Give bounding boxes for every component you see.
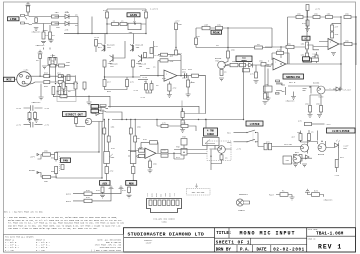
AUX label (100, 181, 111, 186)
svg-text:CHASSIS: CHASSIS (286, 100, 295, 103)
feedback cap C15 (161, 53, 168, 56)
bus wire (112, 119, 244, 121)
resistor R16 (58, 87, 61, 95)
svg-text:EARTH: EARTH (238, 209, 245, 212)
top left caps (144, 53, 147, 58)
wire (104, 67, 106, 77)
wire (64, 75, 85, 96)
resistor R53b (161, 154, 168, 157)
capacitor C13 (28, 113, 31, 119)
dashed mute box (207, 141, 231, 161)
led LED1 (335, 143, 339, 148)
capacitor C4 (52, 22, 59, 25)
wire hp to op5 (265, 46, 305, 48)
svg-text:1020P: 1020P (146, 241, 153, 244)
svg-text:VIEW: VIEW (162, 220, 168, 223)
capacitor C2 (27, 6, 30, 12)
capacitor C7 (126, 80, 129, 87)
top rail (288, 16, 342, 18)
mute drive box (283, 156, 292, 164)
transistor TR2 (110, 56, 114, 63)
svg-text:CHASSIS: CHASSIS (32, 31, 41, 34)
svg-text:TBA1-1.06M: TBA1-1.06M (316, 232, 344, 237)
resistor R62 (299, 134, 302, 141)
resistor R3 (50, 64, 56, 67)
resistor R48 (320, 106, 323, 113)
svg-text:+17V: +17V (16, 124, 22, 127)
diode D2 (65, 21, 69, 26)
ground (305, 29, 310, 32)
aux pot RV5 (104, 152, 110, 164)
pan pot RV7A (55, 153, 58, 160)
svg-text:PEAK: PEAK (213, 32, 220, 35)
svg-text:RIGHT: RIGHT (29, 169, 36, 172)
resistor R18 (62, 82, 65, 89)
wire (47, 65, 70, 67)
resistor R67 (161, 124, 168, 127)
svg-text:LEFT: LEFT (165, 193, 167, 197)
transistor TR1 (102, 34, 106, 52)
ground (26, 2, 31, 5)
svg-text:AUX2: AUX2 (66, 200, 72, 203)
resistor R52 below (149, 161, 152, 168)
link box (57, 91, 76, 102)
svg-text:100R: 100R (136, 62, 142, 65)
wire right edge (350, 17, 356, 65)
capacitor C17 (185, 73, 187, 78)
capacitor C31 (101, 187, 104, 193)
capacitor C21 (216, 26, 223, 30)
wire top row (196, 28, 272, 48)
resistor R21 (60, 95, 67, 98)
svg-text:XLR1: XLR1 (24, 68, 30, 71)
capacitor C34 (61, 165, 64, 170)
resistor R20 (83, 82, 86, 89)
svg-text:MON: MON (129, 182, 134, 185)
svg-text:100R: 100R (108, 62, 114, 65)
svg-text:FAST: FAST (269, 193, 275, 196)
svg-text:+17V: +17V (315, 7, 321, 10)
op-amp U1A (164, 70, 177, 81)
capacitor C28 (309, 106, 312, 113)
resistor R64 (335, 160, 338, 168)
resistor R63 (308, 134, 311, 141)
MIC label (4, 77, 15, 81)
resistor R17 (64, 87, 67, 95)
svg-text:LINE: LINE (10, 18, 17, 21)
ground (186, 94, 191, 97)
ground (87, 102, 92, 105)
pot RV2 (187, 80, 190, 87)
transistor TR3 (130, 34, 134, 52)
resistor R49 (305, 122, 312, 125)
pot RV4 (181, 149, 187, 156)
rail (64, 33, 107, 35)
svg-text:CHASSIS: CHASSIS (32, 101, 41, 104)
feedback resistor R50 (150, 141, 158, 144)
PEAK label (211, 30, 222, 34)
fader F1 (203, 138, 220, 146)
resistor R38 (313, 16, 320, 19)
not fitted box (187, 189, 211, 196)
label box (303, 57, 310, 61)
wire insert return (108, 112, 122, 120)
op-amp U2 (328, 39, 339, 50)
rail mid (64, 33, 146, 35)
resistor R37 (296, 16, 303, 19)
svg-text:-17V: -17V (334, 174, 340, 177)
svg-text:CHASSIS: CHASSIS (36, 44, 45, 47)
svg-text:NORMALISE: NORMALISE (286, 76, 300, 79)
wire (61, 76, 78, 83)
chassis tag (305, 189, 310, 192)
svg-text:+17V: +17V (147, 193, 149, 197)
transistor TR4 (138, 56, 142, 63)
wire gain bus (243, 62, 245, 120)
mon pot RV6 (130, 152, 136, 164)
ground row (42, 66, 47, 69)
svg-text:-17V: -17V (142, 76, 148, 79)
capacitor C10 (58, 75, 63, 78)
diode D6 (306, 155, 310, 159)
resistor R12 phantom (54, 58, 57, 65)
resistor R47 (312, 58, 319, 61)
resistor R11 phantom (48, 58, 51, 65)
capacitor C22 (261, 63, 266, 67)
wire (267, 69, 269, 99)
wire (76, 124, 85, 127)
svg-text:LISTEN: LISTEN (250, 123, 260, 126)
ground opamp (331, 53, 336, 56)
switch SW2 (247, 139, 255, 142)
resistor R26 (192, 74, 199, 77)
capacitor C6 (145, 12, 148, 18)
resistor R8 (132, 60, 135, 67)
CLIP/LISTEN label (327, 128, 356, 133)
wire (301, 130, 318, 144)
svg-text:REV 1: REV 1 (318, 243, 342, 250)
resistor R35 (240, 63, 246, 67)
svg-text:PAN: PAN (63, 160, 68, 163)
pot RV1 (128, 23, 141, 30)
resistor R51 (139, 154, 145, 157)
wire L bus (99, 122, 102, 179)
svg-text:LEFT: LEFT (30, 156, 36, 159)
NORMALISE label (283, 74, 304, 79)
mon stack resistor R56 (129, 128, 132, 134)
resistor R43 (344, 42, 352, 45)
svg-text:-17V: -17V (140, 96, 146, 99)
diode D5 slp (336, 87, 340, 92)
resistor R19 (74, 82, 77, 89)
GAIN label (127, 13, 140, 17)
MON label (126, 181, 137, 186)
resistor R32 (255, 46, 263, 49)
junction dots (106, 23, 107, 24)
svg-text:+48V: +48V (50, 54, 56, 57)
notes table outline (4, 235, 124, 253)
wire feedback right (340, 17, 342, 44)
svg-text:-17V: -17V (44, 107, 50, 110)
wire (132, 67, 134, 77)
eq box bottom (181, 100, 183, 102)
svg-text:( ) REF 1.06M ISSUE PCBS: ( ) REF 1.06M ISSUE PCBS (91, 249, 122, 252)
MIC GAIN label (236, 56, 252, 62)
wire join (256, 133, 264, 147)
wire rail drop (287, 17, 289, 64)
resistor R60 (294, 155, 297, 162)
resistor R5 (112, 23, 119, 26)
resistor R68 (181, 124, 188, 127)
resistor R53 (161, 150, 168, 153)
jack J4 (276, 83, 319, 94)
LDR R28 (202, 26, 210, 30)
resistor R13 (44, 75, 50, 78)
ground (293, 164, 307, 167)
insert label box B (91, 109, 99, 113)
svg-text:-17V: -17V (326, 123, 332, 126)
svg-text:DRWG No: DRWG No (308, 238, 316, 240)
wire (225, 63, 272, 72)
wire (182, 108, 184, 130)
svg-text:FADER: FADER (207, 133, 215, 136)
insert label box A (91, 105, 99, 109)
svg-text:CLIP/LISTEN: CLIP/LISTEN (332, 129, 350, 133)
ground (27, 120, 38, 123)
svg-text:MUTE: MUTE (319, 96, 325, 99)
wire insert send (108, 106, 199, 113)
transistor TR8 (301, 144, 309, 152)
ground chassis jack (34, 28, 39, 31)
svg-text:P.A.: P.A. (240, 249, 250, 253)
aux stack resistor R54 (103, 128, 106, 134)
ground (167, 95, 172, 98)
rail mid (196, 47, 272, 49)
svg-text:-17V: -17V (44, 124, 50, 127)
svg-text:AUX2: AUX2 (155, 193, 158, 197)
capacitor C36 (268, 143, 271, 150)
resistor R40 (331, 32, 334, 38)
wire node joins (78, 17, 92, 34)
capacitor C1 (35, 18, 38, 23)
ground (41, 40, 54, 44)
transistor TR9 (318, 144, 326, 152)
svg-text:MONO MIC INPUT: MONO MIC INPUT (240, 230, 296, 236)
resistor R33 (227, 51, 230, 58)
svg-text:(+17V): (+17V) (150, 8, 157, 11)
resistor R31 (175, 50, 178, 55)
svg-text:MIX B: MIX B (289, 81, 296, 84)
resistor R39 (326, 16, 333, 19)
wire (199, 76, 206, 114)
svg-text:AUX1: AUX1 (151, 193, 154, 197)
diode D3 (96, 112, 100, 116)
svg-text:4 - -VE: 4 - -VE (5, 249, 14, 252)
wire (326, 147, 339, 159)
rail -17V (105, 76, 141, 78)
wire (88, 96, 90, 101)
ground (254, 81, 259, 84)
input network (128, 151, 145, 157)
svg-text:SLP-OUT: SLP-OUT (343, 89, 352, 92)
resistor R9 (103, 80, 106, 87)
transistor TR6 (218, 61, 226, 69)
capacitor C23 (255, 72, 258, 78)
LISTEN label (246, 121, 263, 126)
resistor R61 (299, 155, 302, 162)
ground (39, 97, 44, 100)
resistor R7 (103, 60, 106, 67)
resistor R10 (95, 40, 98, 47)
wire chassis drop (40, 84, 42, 97)
resistor R65 (220, 155, 223, 160)
ground (308, 115, 323, 118)
svg-text:3: 3 (21, 86, 22, 88)
svg-text:+17V: +17V (94, 36, 100, 39)
resistor R22 (75, 118, 78, 124)
svg-text:NOT FITTED: NOT FITTED (192, 191, 205, 194)
not fitted arrow (195, 184, 197, 188)
resistor R34 (230, 63, 238, 67)
resistor R14 (44, 81, 50, 84)
ground (263, 102, 268, 105)
mon stack resistor R57 (134, 136, 137, 142)
resistor R59 (43, 175, 51, 178)
wire top rail (107, 9, 146, 20)
wire (30, 111, 36, 121)
ground (127, 195, 132, 198)
svg-text:MIC: MIC (6, 79, 11, 82)
title block divider left (214, 228, 216, 252)
resistor R58 (43, 153, 51, 156)
connector J1 pins (149, 200, 152, 206)
resistor R29 (195, 38, 198, 45)
resistor R41 (306, 42, 309, 49)
LINE label (8, 17, 20, 21)
switch SW1 (247, 130, 255, 133)
svg-text:BC556: BC556 (313, 82, 320, 85)
wire down normalise (265, 44, 341, 93)
resistor R4 (59, 64, 65, 67)
4TRK FADER label (204, 128, 218, 136)
connector J1 outline (147, 199, 182, 213)
wire (310, 95, 321, 114)
svg-text:GND: GND (161, 194, 163, 197)
diode D1 (65, 14, 69, 19)
svg-text:02-02-2001: 02-02-2001 (273, 249, 305, 253)
svg-text:BC546: BC546 (318, 153, 325, 156)
MF label (303, 58, 312, 62)
capacitor C3 (52, 15, 59, 18)
op-amp U3 (273, 58, 286, 70)
svg-text:DIRECT OUT: DIRECT OUT (66, 114, 84, 117)
eq box corner (182, 101, 206, 114)
title block outline (124, 228, 356, 252)
svg-text:8 - +VE: 8 - +VE (36, 249, 45, 252)
resistor R6 (120, 23, 127, 26)
capacitor C25 (306, 20, 309, 26)
PAN label (61, 158, 71, 162)
wire (286, 87, 342, 95)
wire (211, 147, 222, 164)
title block divider right (306, 228, 308, 252)
capacitor C30 (105, 167, 108, 174)
svg-text:+17V: +17V (16, 107, 22, 110)
ground (180, 130, 185, 133)
wire (105, 77, 128, 90)
svg-text:GAIN: GAIN (130, 14, 137, 17)
capacitor C37 (181, 120, 184, 126)
gang dashed link (59, 156, 61, 172)
aux pot feed wires (104, 120, 108, 152)
resistor R71 (264, 93, 267, 99)
capacitor C26 (331, 25, 334, 31)
svg-text:-17V: -17V (174, 193, 176, 197)
svg-text:DRN BY: DRN BY (216, 249, 232, 253)
output wire (156, 152, 207, 154)
capacitor C35 (264, 143, 267, 150)
feedback resistor R46 (277, 51, 284, 54)
resistor R66 (181, 112, 184, 118)
transistor TR5 (85, 118, 91, 124)
aux stack resistor R55 (107, 136, 110, 142)
ground (100, 195, 105, 198)
ground (266, 98, 271, 101)
resistor R45 (286, 45, 294, 48)
wire mic cold (25, 82, 62, 84)
resistor R36 (220, 70, 223, 76)
wire (55, 17, 79, 24)
svg-text:+17V: +17V (148, 56, 154, 59)
svg-text:AUX: AUX (102, 182, 107, 185)
wire (27, 12, 29, 15)
left bias resistors (145, 84, 148, 91)
ground (291, 97, 296, 100)
diode D4 (249, 63, 253, 68)
svg-text:REV 1 : EQ POTS FROM 47K TO 50: REV 1 : EQ POTS FROM 47K TO 50K (4, 211, 43, 214)
resistor R30 (175, 23, 178, 30)
svg-text:STUDIOMASTER DIAMOND LTD: STUDIOMASTER DIAMOND LTD (128, 231, 205, 237)
capacitor C27 (315, 55, 318, 61)
output wire (286, 63, 341, 65)
wire inputs (314, 42, 329, 47)
op-amp U4 (145, 148, 156, 159)
ground (219, 78, 224, 81)
DIRECT OUT label (63, 112, 87, 117)
capacitor C33 (128, 187, 131, 193)
capacitor C14 (34, 113, 37, 119)
capacitor C32 (132, 167, 135, 174)
wire (50, 54, 56, 82)
resistor R42 (306, 53, 309, 60)
capacitor C5 (106, 12, 109, 18)
svg-text:-17V: -17V (133, 89, 139, 92)
svg-text:CHASSIS: CHASSIS (324, 199, 333, 202)
svg-text:-17V: -17V (236, 148, 242, 151)
output wire (177, 75, 206, 77)
wire pan out (56, 152, 102, 178)
svg-text:BRACKET: BRACKET (239, 193, 248, 196)
svg-text:1: 1 (19, 73, 20, 75)
svg-text:AUX1: AUX1 (66, 193, 72, 196)
svg-text:RGHT: RGHT (170, 193, 172, 197)
resistor R27 below opamp (168, 84, 171, 91)
feedback resistor R24 (160, 59, 168, 62)
resistor R69 (243, 69, 250, 72)
transistor TR7 mute (317, 86, 325, 94)
wire pfl (272, 146, 301, 148)
resistor R44 (344, 16, 351, 19)
